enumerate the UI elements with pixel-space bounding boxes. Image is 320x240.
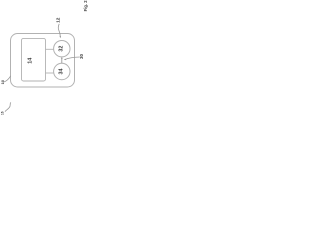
svg-text:Fig. 2: Fig. 2 [83, 0, 88, 11]
svg-text:10: 10 [0, 79, 5, 84]
svg-text:34: 34 [58, 69, 64, 75]
svg-text:16: 16 [0, 111, 4, 115]
svg-text:32: 32 [58, 46, 64, 52]
svg-text:30: 30 [79, 54, 84, 60]
svg-text:14: 14 [28, 58, 34, 64]
svg-text:12: 12 [56, 17, 62, 23]
